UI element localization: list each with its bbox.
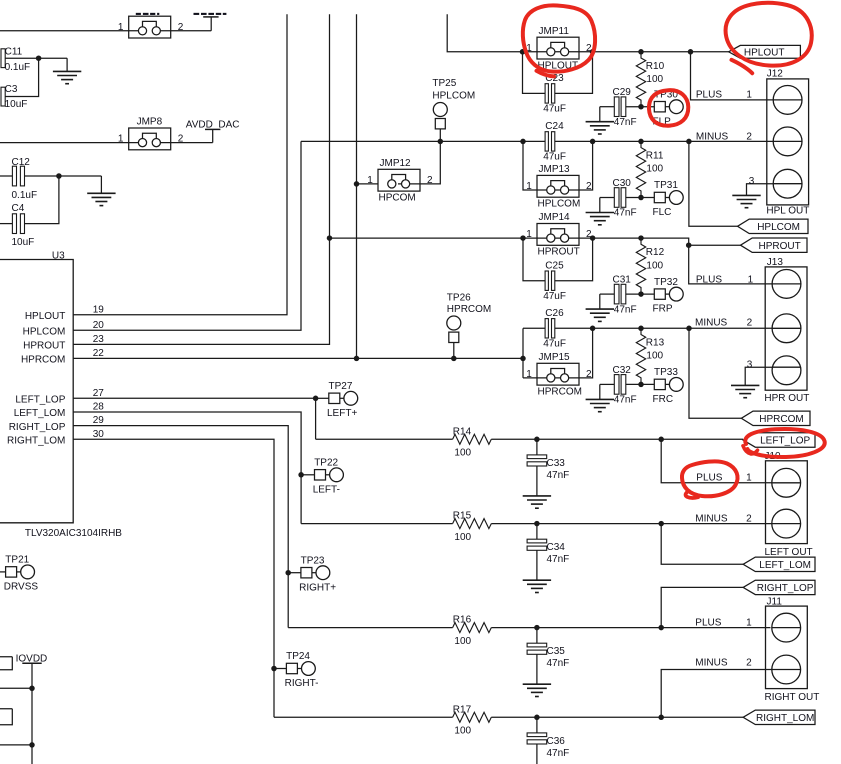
resistor R15 100 — [453, 519, 492, 529]
svg-text:47nF: 47nF — [614, 208, 637, 219]
test point TP23 RIGHT+ — [288, 572, 301, 574]
svg-text:TP22: TP22 — [314, 458, 338, 469]
junction TP23 — [285, 570, 291, 576]
svg-text:C12: C12 — [12, 157, 31, 168]
svg-text:29: 29 — [93, 415, 105, 426]
junction C24 left — [520, 139, 526, 145]
wire C29 to R10/TP30 — [626, 106, 655, 108]
svg-text:2: 2 — [586, 369, 592, 380]
net flag LEFT_LOM — [743, 557, 815, 571]
wire JMP8 pin 2 to AVDD_DAC tick — [160, 142, 213, 144]
svg-text:HPLCOM: HPLCOM — [432, 90, 475, 101]
ground for C12/C4 — [100, 176, 102, 193]
power net tick DVDD (cropped label) — [210, 17, 212, 31]
jumper JMP13 HPLCOM — [537, 175, 579, 197]
ground for C31 — [600, 293, 615, 295]
wire R15 row LEFT_LOM — [301, 523, 771, 525]
test point TP21 DRVSS — [0, 571, 6, 573]
svg-text:1: 1 — [118, 22, 124, 33]
svg-text:HPLOUT: HPLOUT — [744, 48, 785, 59]
svg-text:10uF: 10uF — [12, 237, 35, 248]
capacitor C31 47nF — [614, 284, 619, 304]
svg-text:RIGHT_LOP: RIGHT_LOP — [757, 583, 814, 594]
resistor R10 100 — [636, 52, 645, 107]
svg-text:FLC: FLC — [653, 207, 672, 218]
ground for C33 — [536, 495, 538, 497]
svg-text:2: 2 — [747, 318, 753, 329]
capacitor C35 47nF — [536, 628, 538, 644]
red annotation circle around HPLOUT flag — [726, 3, 812, 66]
connector J11 RIGHT OUT — [766, 606, 808, 689]
wire riser to LEFT_LOM flag — [661, 524, 743, 565]
svg-text:10uF: 10uF — [5, 99, 28, 110]
test point TP30 FLP — [654, 102, 665, 112]
net flag HPLCOM — [738, 219, 809, 233]
junction R12 bottom — [638, 291, 644, 297]
svg-text:LEFT-: LEFT- — [313, 484, 340, 495]
junction R12 top — [638, 235, 644, 241]
svg-text:100: 100 — [454, 532, 471, 543]
svg-text:C11: C11 — [5, 47, 23, 58]
resistor R17 100 — [453, 712, 492, 722]
svg-text:MINUS: MINUS — [695, 514, 728, 525]
wire C4 up to C12 node — [25, 176, 59, 224]
svg-text:0.1uF: 0.1uF — [12, 190, 38, 201]
junction RIGHT_LOP flag riser — [658, 625, 664, 631]
junction IOVDD 1 — [29, 686, 35, 692]
svg-text:HPROUT: HPROUT — [23, 341, 65, 352]
svg-text:2: 2 — [746, 658, 752, 669]
svg-text:RIGHT_LOM: RIGHT_LOM — [756, 713, 814, 724]
test point TP32 FRP — [654, 289, 665, 299]
junction HPROUT flag/J13 — [686, 242, 692, 248]
svg-text:HPR OUT: HPR OUT — [764, 393, 809, 404]
test point TP27 LEFT+ — [316, 397, 329, 399]
capacitor C32 47nF — [614, 375, 619, 395]
ground for C35 — [536, 683, 538, 685]
connector J10 LEFT OUT — [766, 461, 808, 544]
svg-text:PLUS: PLUS — [696, 472, 722, 483]
svg-text:LEFT+: LEFT+ — [327, 408, 357, 419]
svg-text:TP24: TP24 — [286, 651, 310, 662]
junction C11/C3 — [36, 55, 42, 61]
svg-text:LEFT_LOP: LEFT_LOP — [15, 395, 65, 406]
junction R13 top — [638, 326, 644, 332]
svg-text:R14: R14 — [453, 426, 472, 437]
wire to IOVDD node 2 — [0, 744, 32, 746]
svg-text:2: 2 — [427, 175, 433, 186]
wire R14 row LEFT_LOP — [316, 438, 743, 440]
svg-text:MINUS: MINUS — [695, 658, 728, 669]
red annotation circle around TP30 — [649, 90, 688, 126]
svg-text:47nF: 47nF — [614, 304, 637, 315]
resistor R11 100 — [636, 141, 645, 197]
capacitor C36 47nF — [536, 717, 538, 733]
ground for C11/C3 — [66, 58, 68, 71]
svg-text:HPL OUT: HPL OUT — [766, 206, 809, 217]
ground for C34 — [536, 579, 538, 581]
junction pin22/bus — [354, 356, 360, 362]
svg-text:19: 19 — [93, 304, 105, 315]
junction R10 top — [638, 49, 644, 55]
wire C25 bypass loop — [523, 238, 593, 281]
wire pin19 HPLOUT to top bus — [73, 14, 287, 315]
wire riser to HPRCOM flag — [689, 328, 741, 418]
resistor R12 100 — [636, 238, 645, 294]
wire C23 bypass loop — [523, 52, 593, 94]
test point TP22 LEFT- — [301, 474, 314, 476]
junction C35 — [534, 625, 540, 631]
wire pin20 HPLCOM riser — [73, 141, 301, 330]
wire C31 to R12/TP32 — [626, 293, 655, 295]
junction JMP14 pin2 side — [590, 235, 596, 241]
junction C34 — [534, 521, 540, 527]
svg-text:RIGHT_LOP: RIGHT_LOP — [9, 422, 66, 433]
junction JMP11 pin1 side — [520, 49, 526, 55]
resistor R13 100 — [636, 328, 645, 384]
svg-text:C3: C3 — [5, 84, 18, 95]
svg-text:LEFT_LOP: LEFT_LOP — [760, 436, 810, 447]
capacitor C30 47nF — [614, 188, 619, 208]
svg-text:JMP11: JMP11 — [539, 26, 570, 37]
junction LEFT_LOM flag riser — [658, 521, 664, 527]
svg-text:JMP8: JMP8 — [137, 117, 163, 128]
svg-text:JMP15: JMP15 — [539, 352, 571, 363]
wire into C12 — [0, 175, 12, 177]
svg-text:HPROUT: HPROUT — [758, 241, 800, 252]
red annotation around PLUS J10 — [682, 461, 738, 496]
red annotation around LEFT_LOP flag — [745, 429, 824, 457]
junction TP24 — [271, 666, 277, 672]
junction HPROUT bus — [327, 235, 333, 241]
wire pin27 LEFT_LOP column — [73, 398, 315, 439]
svg-text:HPRCOM: HPRCOM — [21, 355, 65, 366]
component box (cropped) lower — [0, 709, 12, 725]
wire JMP13 bypass loop — [523, 141, 593, 190]
wire pin22 HPRCOM to JMP15 column — [73, 357, 523, 359]
ground J13 pin3 — [744, 384, 746, 386]
red annotation circle around JMP11 — [523, 5, 595, 71]
svg-text:1: 1 — [526, 229, 532, 240]
junction R10 bottom — [638, 104, 644, 110]
wire C12 to ground — [25, 175, 102, 177]
svg-text:47nF: 47nF — [547, 554, 570, 565]
resistor R16 100 — [453, 623, 492, 633]
svg-text:RIGHT OUT: RIGHT OUT — [765, 692, 820, 703]
svg-text:22: 22 — [93, 348, 105, 359]
wire pin28 LEFT_LOM column — [73, 412, 301, 524]
svg-text:R16: R16 — [453, 615, 472, 626]
svg-text:C29: C29 — [613, 87, 632, 98]
net flag HPROUT — [741, 238, 808, 252]
svg-text:JMP13: JMP13 — [539, 164, 571, 175]
svg-text:C25: C25 — [545, 260, 564, 271]
svg-text:C30: C30 — [613, 178, 632, 189]
svg-text:PLUS: PLUS — [695, 617, 721, 628]
wire HPROUT row — [330, 238, 741, 245]
svg-text:100: 100 — [646, 74, 663, 85]
capacitor C23 47uF — [545, 84, 548, 103]
svg-text:TP32: TP32 — [654, 277, 678, 288]
wire J12 pin3 to ground — [747, 184, 773, 195]
svg-text:RIGHT+: RIGHT+ — [299, 582, 336, 593]
svg-text:100: 100 — [646, 351, 663, 362]
svg-text:HPLCOM: HPLCOM — [23, 326, 66, 337]
junction pin22 wire joins — [520, 356, 526, 362]
svg-text:JMP14: JMP14 — [539, 212, 571, 223]
svg-text:47nF: 47nF — [614, 117, 637, 128]
svg-text:0.1uF: 0.1uF — [5, 62, 31, 73]
svg-text:1: 1 — [746, 617, 752, 628]
svg-text:FRC: FRC — [653, 394, 674, 405]
svg-text:47nF: 47nF — [614, 395, 637, 406]
junction JMP14 pin1 side — [520, 235, 526, 241]
svg-text:J13: J13 — [767, 257, 784, 268]
svg-text:J12: J12 — [767, 69, 784, 80]
svg-text:HPROUT: HPROUT — [538, 247, 580, 258]
svg-text:3: 3 — [747, 359, 753, 370]
svg-text:47uF: 47uF — [543, 152, 566, 163]
wire C30 to R11/TP31 — [626, 197, 655, 199]
net flag HPLOUT — [729, 45, 801, 58]
connector J13 HPR OUT — [765, 267, 807, 390]
svg-text:TP21: TP21 — [5, 555, 29, 566]
svg-text:1: 1 — [118, 134, 124, 145]
svg-text:LEFT OUT: LEFT OUT — [765, 547, 813, 558]
component box (cropped) upper — [0, 657, 12, 670]
svg-text:1: 1 — [526, 369, 532, 380]
junction HPLOUT to J12 — [688, 49, 694, 55]
test point TP33 FRC — [654, 379, 665, 389]
junction TP22 — [298, 472, 304, 478]
wire JMP10 pin 2 to DVDD tick — [160, 30, 211, 32]
jumper JMP14 HPROUT — [537, 224, 579, 246]
wire R16 row RIGHT_LOP — [288, 627, 770, 629]
svg-text:2: 2 — [178, 134, 184, 145]
svg-text:HPLCOM: HPLCOM — [757, 222, 800, 233]
svg-text:100: 100 — [646, 260, 663, 271]
connector J12 HPL OUT — [767, 79, 809, 205]
svg-text:47uF: 47uF — [543, 339, 566, 350]
net flag RIGHT_LOP — [743, 580, 815, 594]
svg-text:RIGHT_LOM: RIGHT_LOM — [7, 436, 65, 447]
svg-text:C33: C33 — [547, 458, 566, 469]
svg-text:C32: C32 — [613, 365, 632, 376]
svg-text:3: 3 — [749, 176, 755, 187]
power net AVDD_DAC — [212, 129, 214, 142]
capacitor C12 0.1uF — [12, 166, 16, 186]
svg-text:2: 2 — [178, 22, 184, 33]
wire riser to J10 PLUS — [661, 439, 771, 483]
wire JMP15 loop — [523, 328, 593, 378]
svg-text:47uF: 47uF — [543, 291, 566, 302]
ground for C32 — [600, 383, 615, 385]
capacitor C29 47nF — [614, 97, 619, 117]
junction C33 — [534, 437, 540, 443]
wire pin29 RIGHT_LOP column — [73, 426, 288, 628]
svg-text:C31: C31 — [613, 275, 632, 286]
wire JMP15 left column — [522, 328, 524, 378]
jumper JMP15 HPRCOM — [537, 363, 579, 385]
svg-text:1: 1 — [746, 472, 752, 483]
svg-text:28: 28 — [93, 402, 105, 413]
svg-text:R13: R13 — [646, 337, 665, 348]
svg-text:C36: C36 — [547, 736, 566, 747]
svg-text:C24: C24 — [545, 121, 564, 132]
svg-text:100: 100 — [454, 726, 471, 737]
svg-text:LEFT_LOM: LEFT_LOM — [759, 560, 811, 571]
svg-text:1: 1 — [367, 175, 373, 186]
svg-text:C35: C35 — [547, 646, 566, 657]
wire C11 to ground — [5, 57, 67, 59]
junction R13 bottom — [638, 382, 644, 388]
svg-text:TP23: TP23 — [301, 555, 325, 566]
wire R17 row RIGHT_LOM — [274, 716, 743, 718]
svg-text:2: 2 — [746, 514, 752, 525]
net flag RIGHT_LOM — [743, 710, 815, 724]
svg-text:TP27: TP27 — [329, 381, 353, 392]
junction C26 right — [590, 326, 596, 332]
svg-text:HPCOM: HPCOM — [379, 192, 416, 203]
wire C32 to R13/TP33 — [626, 383, 655, 385]
svg-text:PLUS: PLUS — [696, 275, 722, 286]
svg-text:C4: C4 — [12, 203, 25, 214]
svg-text:RIGHT-: RIGHT- — [285, 678, 319, 689]
svg-text:FRP: FRP — [653, 304, 673, 315]
junction C36 — [534, 715, 540, 721]
svg-text:23: 23 — [93, 334, 105, 345]
svg-text:100: 100 — [454, 448, 471, 459]
svg-text:JMP12: JMP12 — [380, 158, 412, 169]
svg-text:47nF: 47nF — [547, 658, 570, 669]
svg-text:TP31: TP31 — [654, 180, 678, 191]
wire C3 up to C11 node — [5, 58, 38, 96]
junction HPRCOM flag riser — [686, 326, 692, 332]
svg-text:100: 100 — [454, 636, 471, 647]
junction HPLCOM flag riser — [686, 139, 692, 145]
svg-text:HPRCOM: HPRCOM — [447, 304, 491, 315]
svg-text:47nF: 47nF — [547, 470, 570, 481]
svg-text:R10: R10 — [646, 61, 665, 72]
svg-text:R11: R11 — [646, 150, 664, 161]
wire into JMP10 pin 1 — [0, 30, 138, 32]
capacitor C4 10uF — [12, 214, 16, 234]
test point TP25 HPLCOM — [439, 129, 441, 142]
wire into C4 — [0, 223, 12, 225]
svg-text:47uF: 47uF — [543, 104, 566, 115]
svg-text:DRVSS: DRVSS — [4, 582, 39, 593]
capacitor C25 47uF — [545, 271, 548, 290]
net flag HPRCOM — [741, 411, 810, 425]
svg-text:TP26: TP26 — [447, 293, 471, 304]
junction TP25/JMP12 — [438, 139, 444, 145]
junction IOVDD 2 — [29, 742, 35, 748]
svg-text:U3: U3 — [52, 251, 65, 262]
svg-text:MINUS: MINUS — [695, 318, 728, 329]
svg-text:HPRCOM: HPRCOM — [759, 414, 803, 425]
junction C24 right — [590, 139, 596, 145]
wire HPLOUT row feed — [447, 14, 728, 52]
svg-text:PLUS: PLUS — [696, 90, 722, 101]
svg-text:R17: R17 — [453, 704, 472, 715]
junction J10 riser — [658, 437, 664, 443]
svg-text:R15: R15 — [453, 511, 472, 522]
jumper JMP11 — [537, 37, 579, 59]
svg-text:R12: R12 — [646, 247, 665, 258]
svg-text:TP33: TP33 — [654, 367, 678, 378]
svg-text:20: 20 — [93, 320, 105, 331]
svg-text:TP25: TP25 — [432, 78, 456, 89]
ground for C29 — [600, 106, 615, 108]
wire pin23 HPROUT to top bus — [73, 14, 329, 344]
jumper JMP10 (label cropped) — [129, 16, 171, 38]
capacitor C24 47uF — [545, 132, 548, 151]
svg-text:1: 1 — [748, 275, 754, 286]
ground for C30 — [600, 197, 615, 199]
junction J11 MINUS riser — [658, 715, 664, 721]
svg-text:2: 2 — [586, 181, 592, 192]
wire HPRCOM row — [523, 327, 772, 329]
wire pin30 RIGHT_LOM column — [73, 439, 274, 717]
resistor R14 100 — [453, 434, 492, 444]
jumper JMP8 — [129, 128, 171, 150]
wire into JMP8 pin 1 — [0, 142, 138, 144]
test point TP31 FLC — [654, 192, 665, 202]
junction JMP11 pin2 side — [590, 49, 596, 55]
wire HPLCOM row — [301, 140, 773, 142]
svg-text:J11: J11 — [767, 597, 783, 608]
wire J13 pin3 to ground — [745, 367, 772, 385]
svg-text:47nF: 47nF — [547, 748, 570, 759]
vertical bus to JMP12 — [356, 14, 358, 358]
net flag LEFT_LOP — [743, 433, 815, 447]
svg-text:1: 1 — [526, 181, 532, 192]
wire riser to J13 PLUS — [689, 245, 772, 284]
capacitor C26 47uF — [545, 319, 548, 338]
svg-text:1: 1 — [746, 90, 752, 101]
junction R11 top — [638, 139, 644, 145]
wire riser to RIGHT_LOP flag — [661, 587, 743, 627]
junction TP26 — [451, 356, 457, 362]
svg-text:HPLCOM: HPLCOM — [538, 199, 581, 210]
jumper JMP12 HPCOM — [357, 183, 379, 185]
junction TP27 — [313, 396, 319, 402]
svg-text:C34: C34 — [547, 542, 566, 553]
svg-text:100: 100 — [646, 164, 663, 175]
svg-text:30: 30 — [93, 429, 105, 440]
junction JMP12 pin1/bus — [354, 181, 360, 187]
capacitor C33 47nF — [536, 439, 538, 455]
svg-text:AVDD_DAC: AVDD_DAC — [186, 120, 240, 131]
ground J12 pin3 — [746, 194, 748, 196]
test point TP24 RIGHT- — [274, 668, 286, 670]
junction R11 bottom — [638, 195, 644, 201]
wire riser to J12 PLUS — [691, 52, 773, 100]
junction C12/C4 — [56, 173, 62, 179]
op-amp U3 TLV320AIC3104IRHB (IC body) — [0, 260, 73, 523]
svg-text:LEFT_LOM: LEFT_LOM — [14, 408, 66, 419]
svg-text:HPRCOM: HPRCOM — [538, 386, 582, 397]
test point TP26 HPRCOM — [453, 343, 455, 359]
wire to IOVDD node 1 — [0, 687, 32, 689]
svg-text:HPLOUT: HPLOUT — [25, 311, 66, 322]
svg-text:TLV320AIC3104IRHB: TLV320AIC3104IRHB — [25, 528, 122, 539]
capacitor C34 47nF — [536, 524, 538, 540]
svg-text:27: 27 — [93, 388, 105, 399]
wire riser to J11 MINUS — [661, 670, 771, 718]
wire riser to HPLCOM flag — [689, 141, 738, 226]
svg-text:C26: C26 — [545, 308, 564, 319]
